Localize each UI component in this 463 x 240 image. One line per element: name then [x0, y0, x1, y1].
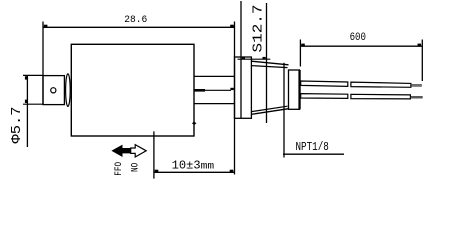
dimension 600 extension lines [300, 40, 422, 82]
dimension S12.7 line [238, 57, 271, 59]
top wire right segment [351, 82, 411, 87]
top wire stripped tip [411, 84, 422, 87]
NPT taper inner top thread line [251, 66, 287, 68]
label OFF (rotated) [114, 162, 125, 176]
float body [43, 76, 64, 105]
wire: left extension line x=43 (28.6 dim + float left edge) [42, 22, 44, 105]
diamond marker on body right edge [192, 122, 197, 125]
label mm [201, 162, 215, 173]
wire: long vertical x=234.5 (28.6 ext + flange left edge + 10mm ext) [234, 22, 236, 175]
float hole circle [51, 88, 56, 93]
cable boss [289, 70, 300, 109]
svg-text:Φ5.7: Φ5.7 [9, 107, 25, 144]
NPT1/8 leader line [283, 63, 344, 158]
label ON (rotated) [130, 163, 141, 172]
svg-text:NPT1/8: NPT1/8 [296, 141, 329, 154]
float collar ring [66, 74, 71, 107]
ON arrow (white, points right) [131, 145, 147, 157]
hex flange of fitting [235, 57, 252, 118]
label 28.6 [124, 14, 147, 26]
NPT taper inner bottom thread line [251, 106, 287, 111]
bottom wire left segment [301, 94, 348, 99]
dimension 10mm line [154, 170, 235, 173]
top wire left segment [301, 81, 348, 86]
label 600 [350, 32, 366, 44]
NPT taper outer top edge [251, 61, 288, 65]
dimension 28.6 line [43, 25, 235, 28]
label S12.7 (rotated) [251, 5, 267, 53]
reed switch dash and leader arrow [194, 88, 234, 91]
dimension 10mm left extension line [153, 131, 155, 178]
label 10±3 [172, 160, 201, 173]
bottom wire stripped tip [411, 96, 423, 99]
flange inner line + S12.7 left extension x=241 [240, 1, 242, 118]
svg-text:10±3: 10±3 [172, 160, 201, 173]
dimension Phi5.7 line [25, 75, 28, 147]
cable end cap (thick bar) [298, 70, 300, 109]
svg-text:NO: NO [130, 163, 141, 172]
NPT taper outer bottom edge [251, 109, 288, 115]
svg-text:28.6: 28.6 [124, 14, 147, 26]
svg-text:600: 600 [350, 32, 366, 44]
main body rectangle [71, 44, 194, 136]
dimension S12.7 right extension line [266, 3, 268, 123]
svg-text:FFO: FFO [114, 162, 125, 176]
dimension 600 line [300, 44, 422, 47]
dimension Phi5.7 extension lines [23, 75, 43, 104]
stem tube bottom line [194, 103, 235, 105]
label Phi5.7 (rotated) [9, 107, 25, 144]
OFF arrow (black, points left) [111, 145, 130, 157]
svg-text:S12.7: S12.7 [251, 5, 267, 53]
label NPT1/8 [296, 141, 329, 154]
svg-text:mm: mm [201, 162, 215, 173]
bottom wire right segment [351, 94, 411, 99]
stem tube top line [194, 75, 235, 77]
